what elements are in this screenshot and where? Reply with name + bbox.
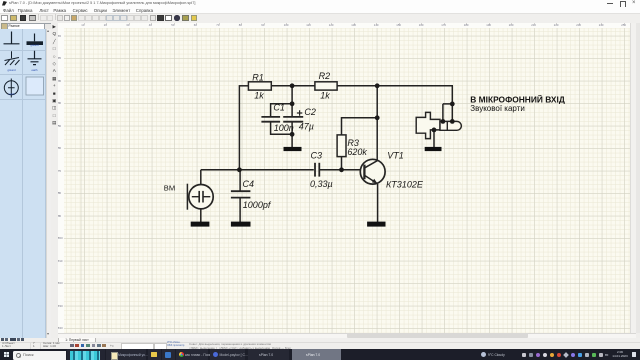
canvas with grid (64, 28, 630, 333)
explorer icon (148, 349, 161, 360)
search box (13, 351, 66, 360)
svg-text:1000pf: 1000pf (243, 200, 272, 210)
palette selected cell (26, 77, 44, 95)
wire (271, 104, 293, 135)
node jack top (450, 102, 455, 107)
resistor R1 (248, 82, 271, 90)
svg-text:1k: 1k (320, 90, 330, 100)
node jack ring (450, 119, 455, 124)
second row with combo (0, 23, 62, 30)
node jack sleeve (432, 127, 437, 132)
node C1/C2 top (290, 101, 295, 106)
svg-text:100n: 100n (274, 123, 294, 133)
media thumbnail button (67, 349, 105, 360)
taskbar (0, 349, 640, 360)
node R2/collector (375, 83, 380, 88)
capacitor C2 (283, 117, 303, 122)
wire (451, 86, 453, 122)
svg-text:C4: C4 (243, 179, 255, 189)
svg-text:В МІКРОФОННИЙ ВХІД: В МІКРОФОННИЙ ВХІД (470, 93, 565, 104)
ground (C4) (231, 222, 251, 227)
wire (433, 130, 435, 148)
chrome button (176, 349, 208, 360)
node R3 top (375, 115, 380, 120)
toolbar (0, 13, 640, 24)
jack plug X1 (416, 112, 461, 138)
svg-text:Звукової карти: Звукової карти (470, 104, 525, 113)
capacitor C3 (315, 163, 319, 177)
active splan button (292, 349, 341, 360)
wire (291, 122, 293, 147)
wire (239, 198, 241, 223)
ground (C2) (284, 147, 302, 151)
palette (0, 29, 46, 338)
wire (341, 157, 343, 170)
blue app icon (162, 349, 175, 360)
node R1/R2 (290, 83, 295, 88)
palette pager buttons (1, 338, 4, 341)
node C1/C2 bottom (290, 132, 295, 137)
svg-text:BM: BM (164, 183, 175, 192)
status bar (0, 342, 640, 350)
wire (271, 85, 315, 87)
wire (201, 169, 314, 171)
rulers (58, 23, 630, 30)
wire (342, 118, 378, 135)
node jack tip (441, 119, 446, 124)
ground (emitter) (367, 222, 385, 227)
tray icons (522, 353, 526, 357)
resistor R3 (337, 135, 346, 157)
svg-text:R1: R1 (252, 73, 264, 83)
palette symbols (0, 26, 46, 101)
wire (319, 169, 363, 171)
svg-text:0,33µ: 0,33µ (310, 179, 333, 189)
node mic/C4 (237, 167, 242, 172)
C2 plus sign (297, 110, 302, 115)
palette earth (28, 51, 42, 65)
microphone BM (187, 184, 213, 210)
svg-text:КТ3102Е: КТ3102Е (386, 179, 424, 189)
svg-text:R2: R2 (319, 71, 331, 81)
splan doc button (106, 349, 146, 360)
svg-text:C2: C2 (304, 107, 316, 117)
svg-text:47µ: 47µ (299, 122, 314, 132)
ground (jack) (425, 147, 442, 151)
wire (376, 86, 378, 161)
ground (mic) (191, 222, 210, 227)
svg-text:620k: 620k (347, 147, 367, 157)
palette gnd thick (27, 34, 44, 46)
start button (4, 352, 9, 357)
tray weather (481, 352, 486, 357)
notification (632, 352, 637, 357)
svg-text:1k: 1k (254, 90, 264, 100)
wire (239, 85, 248, 87)
clock (611, 351, 629, 359)
wire (337, 85, 453, 87)
resistor R2 (315, 82, 337, 90)
menu bar (0, 7, 640, 13)
tab bar + hscroll (58, 333, 636, 340)
palette gnd thin (4, 32, 20, 44)
capacitor C1 (261, 117, 280, 122)
node R3/base (339, 167, 344, 172)
wire (443, 104, 453, 122)
svg-text:C1: C1 (273, 103, 285, 113)
app button 2 (210, 349, 245, 360)
palette earth electrode (4, 79, 18, 98)
wire (200, 170, 202, 184)
splan taskbar button (248, 349, 289, 360)
svg-text:C3: C3 (311, 150, 323, 160)
svg-text:VT1: VT1 (387, 150, 404, 160)
wire (291, 86, 293, 116)
node junction dots (237, 83, 455, 172)
palette chassis ground (5, 51, 20, 65)
wire (239, 170, 241, 191)
wire (238, 85, 240, 170)
transistor VT1 (360, 159, 385, 184)
capacitor C4 (231, 191, 251, 197)
wire (200, 209, 202, 222)
title bar (0, 0, 640, 7)
wire (377, 184, 379, 223)
